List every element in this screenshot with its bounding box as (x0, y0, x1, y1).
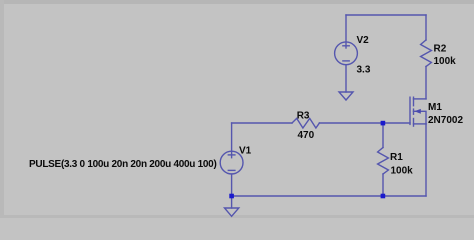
transistor M1 body arrow (414, 109, 421, 114)
svg-text:100k: 100k (391, 166, 414, 177)
transistor M1 drain bar (414, 98, 427, 100)
wire M1 source lead down (425, 124, 427, 196)
node junction R1 bottom (381, 194, 386, 199)
svg-text:3.3: 3.3 (357, 65, 371, 76)
node junction V1 bottom (229, 194, 234, 199)
wire to ground (V1) (231, 196, 233, 208)
svg-text:PULSE(3.3 0 100u 20n 20n 200u: PULSE(3.3 0 100u 20n 20n 200u 400u 100) (29, 159, 217, 170)
wire R1 top lead (382, 123, 384, 148)
wire V1 bottom lead (231, 174, 233, 196)
svg-text:R1: R1 (390, 152, 403, 163)
resistor R1 (378, 148, 389, 175)
wire bottom rail (232, 195, 426, 197)
svg-text:100k: 100k (434, 56, 457, 67)
wire R3 to node A (319, 122, 383, 124)
ground (V1) (225, 208, 239, 216)
wire R2 to M1 drain (425, 67, 427, 99)
svg-text:M1: M1 (428, 102, 442, 113)
svg-text:2N7002: 2N7002 (428, 115, 463, 126)
V2 minus mark (343, 60, 349, 62)
wire V2 bottom lead (345, 65, 347, 92)
transistor M1 source bar (414, 123, 427, 125)
transistor M1 gate bar (409, 97, 411, 124)
wire V2 top lead (345, 15, 347, 48)
svg-text:R3: R3 (297, 111, 310, 122)
wire R1 bottom lead (382, 174, 384, 196)
wire V1 top to R3 (231, 123, 233, 158)
resistor R2 (421, 40, 432, 67)
transistor M1 body line (414, 111, 427, 124)
transistor M1 channel top segment (413, 97, 415, 106)
V2 plus mark (343, 45, 349, 47)
resistor R3 (292, 118, 319, 128)
V1 plus mark (228, 154, 235, 156)
wire gate lead from node A (383, 122, 410, 124)
wire top rail V2 to R2 (346, 14, 426, 16)
transistor M1 channel middle segment (413, 109, 415, 114)
transistor M1 channel bottom segment (413, 119, 415, 127)
V1 minus mark (228, 169, 235, 171)
svg-text:R2: R2 (434, 44, 447, 55)
node A junction (381, 121, 386, 126)
voltage source V2 (335, 42, 358, 65)
svg-text:470: 470 (298, 130, 315, 141)
svg-text:V1: V1 (239, 146, 252, 157)
svg-text:V2: V2 (357, 35, 370, 46)
wire R2 top lead (425, 15, 427, 40)
ground (V2) (339, 92, 353, 100)
voltage source V1 (220, 151, 243, 174)
